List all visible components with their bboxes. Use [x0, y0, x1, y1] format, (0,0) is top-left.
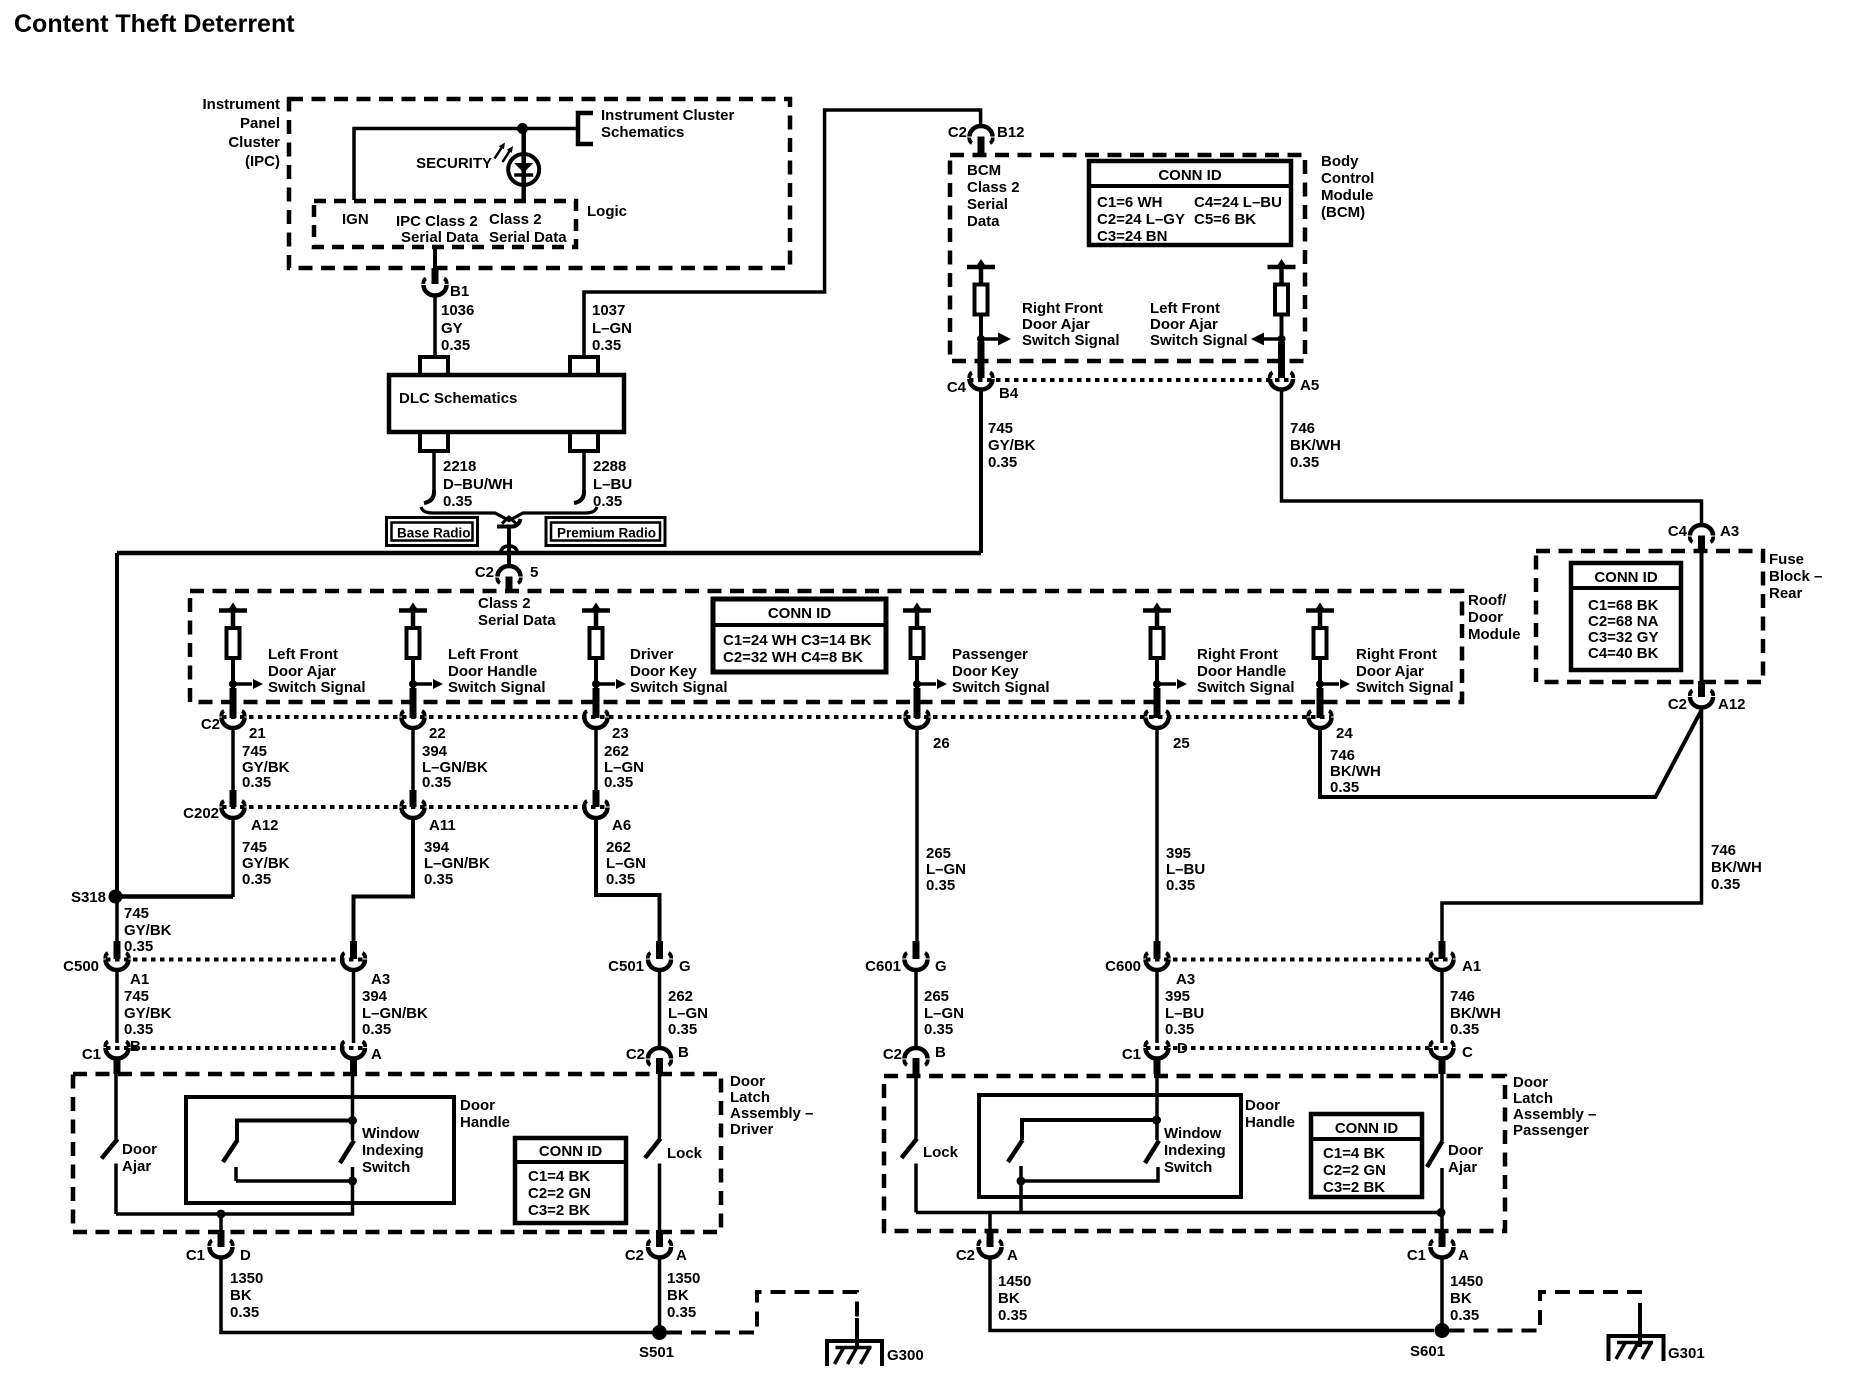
- svg-text:745: 745: [242, 743, 267, 760]
- svg-text:C3=32 GY: C3=32 GY: [1588, 629, 1658, 646]
- svg-text:Door Key: Door Key: [952, 663, 1019, 680]
- wire 2288 L-BU: [582, 451, 586, 494]
- connector C2 B (passenger lock): [883, 1044, 946, 1074]
- Body Control Module box: [950, 153, 1374, 361]
- svg-text:C2: C2: [883, 1046, 902, 1063]
- switch window right driver: [340, 1141, 354, 1164]
- svg-text:C1=68 BK: C1=68 BK: [1588, 597, 1659, 614]
- wire 746 BK/WH from A5: [1282, 391, 1702, 525]
- svg-text:Switch Signal: Switch Signal: [268, 679, 366, 696]
- svg-text:C2: C2: [948, 124, 967, 141]
- module connector row C2: [222, 715, 1331, 719]
- svg-text:Latch: Latch: [1513, 1090, 1553, 1107]
- svg-text:745: 745: [988, 420, 1013, 437]
- svg-text:C1: C1: [82, 1046, 101, 1063]
- svg-text:21: 21: [249, 725, 266, 742]
- svg-text:L–GN/BK: L–GN/BK: [362, 1005, 428, 1022]
- svg-text:394: 394: [424, 839, 450, 856]
- svg-text:L–GN/BK: L–GN/BK: [424, 855, 490, 872]
- node window lower passenger: [1017, 1177, 1026, 1186]
- svg-text:0.35: 0.35: [422, 774, 451, 791]
- svg-text:25: 25: [1173, 735, 1190, 752]
- wire window drop passenger: [1019, 1181, 1023, 1213]
- svg-text:D–BU/WH: D–BU/WH: [443, 476, 513, 493]
- svg-text:745: 745: [124, 905, 149, 922]
- connector row C600: [1146, 958, 1453, 962]
- wire 262 L-GN pin23: [594, 729, 598, 790]
- connector C (passenger): [1430, 1042, 1473, 1075]
- svg-text:C1: C1: [1122, 1046, 1141, 1063]
- svg-text:746: 746: [1330, 747, 1355, 764]
- ground G300: [825, 1339, 924, 1366]
- resistor right front door handle switch: [1143, 603, 1171, 691]
- connector C2 A (passenger bottom): [956, 1230, 1018, 1264]
- wire 745 GY/BK from B4: [979, 391, 983, 554]
- svg-text:Control: Control: [1321, 170, 1374, 187]
- LED SECURITY indicator: [508, 154, 539, 185]
- svg-text:C3=2 BK: C3=2 BK: [528, 1202, 590, 1219]
- wire 1450 BK from C2 A passenger: [990, 1258, 1434, 1331]
- wire 746 BK/WH pin24: [1320, 710, 1702, 797]
- svg-text:0.35: 0.35: [604, 774, 633, 791]
- node window upper driver: [348, 1116, 357, 1125]
- wire through fuse block: [1700, 551, 1704, 696]
- connector C202 A11: [401, 790, 455, 834]
- connector C2 pin 25: [1145, 688, 1189, 752]
- svg-text:D: D: [1177, 1040, 1188, 1057]
- svg-text:0.35: 0.35: [1165, 1021, 1194, 1038]
- connector C601 G: [865, 941, 947, 975]
- BCM CONN ID table: [1089, 161, 1291, 245]
- svg-text:Right Front: Right Front: [1356, 646, 1437, 663]
- connector C500 A1: [63, 941, 149, 988]
- wire 394 L-GN/BK A3-A: [352, 970, 356, 1043]
- connector row C202: [222, 805, 607, 809]
- svg-text:395: 395: [1166, 845, 1191, 862]
- svg-text:Indexing: Indexing: [1164, 1142, 1226, 1159]
- DLC Schematics box: [389, 375, 624, 432]
- svg-text:BCM: BCM: [967, 162, 1001, 179]
- switch lock passenger: [902, 1074, 959, 1213]
- wire 265 L-GN C601-C2: [914, 970, 918, 1046]
- radio tap symbol: [497, 519, 521, 527]
- bus crossover bump: [501, 546, 518, 553]
- svg-text:C1: C1: [1407, 1247, 1426, 1264]
- svg-text:745: 745: [242, 839, 267, 856]
- svg-text:5: 5: [530, 564, 538, 581]
- svg-text:262: 262: [606, 839, 631, 856]
- svg-text:C3=2 BK: C3=2 BK: [1323, 1179, 1385, 1196]
- svg-text:Instrument Cluster: Instrument Cluster: [601, 107, 735, 124]
- connector C2 pin 22: [401, 688, 445, 742]
- svg-text:Class 2: Class 2: [489, 211, 542, 228]
- svg-text:A: A: [676, 1247, 687, 1264]
- svg-text:A3: A3: [1176, 971, 1195, 988]
- svg-text:C4: C4: [1668, 523, 1688, 540]
- svg-text:0.35: 0.35: [124, 1021, 153, 1038]
- svg-text:746: 746: [1711, 842, 1736, 859]
- svg-text:Switch Signal: Switch Signal: [630, 679, 728, 696]
- svg-text:Switch: Switch: [362, 1159, 410, 1176]
- svg-text:C500: C500: [63, 958, 99, 975]
- svg-text:D: D: [240, 1247, 251, 1264]
- wire passenger ground link: [916, 1211, 1441, 1215]
- svg-text:C601: C601: [865, 958, 901, 975]
- Premium Radio box: [546, 518, 665, 546]
- svg-text:0.35: 0.35: [668, 1021, 697, 1038]
- wire LED vertical: [521, 129, 526, 201]
- svg-text:Door Ajar: Door Ajar: [268, 663, 336, 680]
- svg-text:B: B: [678, 1044, 689, 1061]
- svg-text:Serial Data: Serial Data: [489, 229, 567, 246]
- wire 1037 L-GN to BCM: [584, 110, 981, 356]
- svg-text:SECURITY: SECURITY: [416, 155, 492, 172]
- svg-text:Handle: Handle: [460, 1114, 510, 1131]
- wire 1450 BK from C1 A: [1440, 1258, 1444, 1331]
- svg-text:2288: 2288: [593, 458, 626, 475]
- svg-text:BK: BK: [1450, 1290, 1472, 1307]
- svg-text:0.35: 0.35: [667, 1304, 696, 1321]
- svg-text:23: 23: [612, 725, 629, 742]
- bracket Instrument Cluster Schematics: [578, 113, 593, 144]
- connector row C500: [106, 958, 364, 962]
- svg-text:G: G: [679, 958, 691, 975]
- svg-text:Right Front: Right Front: [1197, 646, 1278, 663]
- svg-text:A12: A12: [251, 817, 279, 834]
- connector C2 A12 (fuse block): [1668, 681, 1746, 713]
- svg-text:L–GN: L–GN: [926, 861, 966, 878]
- svg-text:262: 262: [604, 743, 629, 760]
- svg-text:CONN ID: CONN ID: [1335, 1120, 1399, 1137]
- svg-text:Left Front: Left Front: [268, 646, 338, 663]
- svg-text:Ajar: Ajar: [122, 1158, 151, 1175]
- resistor passenger door key switch: [903, 603, 931, 691]
- svg-text:C4=40 BK: C4=40 BK: [1588, 645, 1659, 662]
- svg-text:Switch Signal: Switch Signal: [1150, 332, 1248, 349]
- wire driver ground link: [116, 1181, 353, 1214]
- svg-text:0.35: 0.35: [424, 871, 453, 888]
- dashed ground run to G300: [667, 1292, 857, 1333]
- wire 1450 BK from C2 A driver: [658, 1258, 662, 1333]
- svg-text:C4=24 L–BU: C4=24 L–BU: [1194, 194, 1282, 211]
- wire window switch upper driver: [237, 1121, 353, 1142]
- svg-text:746: 746: [1290, 420, 1315, 437]
- svg-text:Cluster: Cluster: [228, 134, 280, 151]
- LED arrows: [495, 143, 514, 163]
- node arrow right front: [977, 335, 985, 343]
- Window Indexing Switch box passenger: [979, 1095, 1241, 1197]
- wire 394 L-GN/BK pin22: [411, 729, 415, 790]
- connector row C1 passenger: [1146, 1046, 1453, 1050]
- wire 1036 GY: [433, 296, 437, 356]
- svg-text:A3: A3: [1720, 523, 1739, 540]
- wire 745 GY/BK pin21: [231, 729, 235, 790]
- connector C2 pin 23: [584, 688, 628, 742]
- svg-text:Switch: Switch: [1164, 1159, 1212, 1176]
- wire 745 GY/BK C500-C1: [115, 970, 119, 1043]
- svg-text:0.35: 0.35: [592, 337, 621, 354]
- svg-text:Content Theft Deterrent: Content Theft Deterrent: [14, 10, 295, 38]
- svg-text:Lock: Lock: [667, 1145, 703, 1162]
- svg-text:Roof/: Roof/: [1468, 592, 1507, 609]
- svg-text:Indexing: Indexing: [362, 1142, 424, 1159]
- svg-text:C2=2 GN: C2=2 GN: [528, 1185, 591, 1202]
- splice S318: [117, 894, 233, 899]
- svg-text:B: B: [130, 1038, 141, 1055]
- svg-text:C1=6 WH: C1=6 WH: [1097, 194, 1162, 211]
- svg-text:Module: Module: [1468, 626, 1521, 643]
- svg-text:Instrument: Instrument: [202, 96, 280, 113]
- svg-text:0.35: 0.35: [230, 1304, 259, 1321]
- node arrow LF door ajar: [229, 680, 237, 688]
- svg-text:A6: A6: [612, 817, 631, 834]
- node arrow LF door handle: [409, 680, 417, 688]
- dashed ground run to G301: [1450, 1292, 1641, 1331]
- wire IGN to node: [354, 129, 577, 201]
- node arrow RF door ajar: [1316, 680, 1324, 688]
- svg-text:GY/BK: GY/BK: [242, 855, 290, 872]
- wire 395 L-BU C600-C1: [1155, 970, 1159, 1043]
- svg-text:Door: Door: [1468, 609, 1503, 626]
- ground G301: [1607, 1334, 1705, 1362]
- svg-text:Handle: Handle: [1245, 1114, 1295, 1131]
- wire from connector A into window switch: [351, 1074, 355, 1140]
- svg-text:G: G: [935, 958, 947, 975]
- svg-text:A1: A1: [130, 971, 149, 988]
- wire 1350 BK from C1 D: [221, 1258, 652, 1333]
- splice S601: [1435, 1323, 1450, 1338]
- wire 262 L-GN A6: [596, 819, 660, 942]
- wire 2218 D-BU/WH: [432, 451, 436, 494]
- svg-text:0.35: 0.35: [1450, 1307, 1479, 1324]
- svg-text:C2=32 WH C4=8 BK: C2=32 WH C4=8 BK: [723, 649, 863, 666]
- svg-text:Body: Body: [1321, 153, 1359, 170]
- svg-text:A: A: [1458, 1247, 1469, 1264]
- svg-text:GY/BK: GY/BK: [124, 922, 172, 939]
- svg-text:Window: Window: [362, 1125, 420, 1142]
- svg-text:A: A: [1007, 1247, 1018, 1264]
- svg-text:B: B: [935, 1044, 946, 1061]
- svg-text:A1: A1: [1462, 958, 1481, 975]
- svg-text:0.35: 0.35: [988, 454, 1017, 471]
- svg-text:1450: 1450: [998, 1273, 1031, 1290]
- svg-text:L–GN: L–GN: [592, 320, 632, 337]
- svg-text:Door: Door: [730, 1073, 765, 1090]
- svg-text:Lock: Lock: [923, 1144, 959, 1161]
- svg-text:(IPC): (IPC): [245, 153, 280, 170]
- svg-text:A5: A5: [1300, 377, 1319, 394]
- svg-text:Latch: Latch: [730, 1089, 770, 1106]
- svg-text:Door Ajar: Door Ajar: [1356, 663, 1424, 680]
- svg-text:B1: B1: [450, 283, 469, 300]
- svg-text:S501: S501: [639, 1344, 674, 1361]
- connector C2 B (driver lock): [626, 1044, 689, 1074]
- svg-text:L–GN: L–GN: [668, 1005, 708, 1022]
- wire 262 L-GN C501-C2: [658, 970, 662, 1046]
- svg-text:0.35: 0.35: [1711, 876, 1740, 893]
- node junction dot: [517, 123, 528, 134]
- svg-text:BK/WH: BK/WH: [1290, 437, 1341, 454]
- svg-text:0.35: 0.35: [242, 871, 271, 888]
- svg-text:A12: A12: [1718, 696, 1746, 713]
- svg-text:IGN: IGN: [342, 211, 369, 228]
- svg-text:Door: Door: [460, 1097, 495, 1114]
- svg-text:BK: BK: [667, 1287, 689, 1304]
- svg-text:262: 262: [668, 988, 693, 1005]
- wire from C1 D into window switch: [1155, 1074, 1159, 1140]
- connector C2 A (driver bottom): [625, 1230, 687, 1264]
- svg-text:S601: S601: [1410, 1343, 1445, 1360]
- node arrow driver door key: [592, 680, 600, 688]
- svg-text:BK/WH: BK/WH: [1450, 1005, 1501, 1022]
- connector A1 (passenger): [1430, 941, 1481, 975]
- svg-text:Right Front: Right Front: [1022, 300, 1103, 317]
- svg-text:24: 24: [1336, 725, 1353, 742]
- svg-text:Block –: Block –: [1769, 568, 1822, 585]
- connector C2 B12: [948, 124, 1025, 154]
- svg-text:S318: S318: [71, 889, 106, 906]
- connector A (driver): [342, 1042, 382, 1075]
- svg-text:Assembly –: Assembly –: [1513, 1106, 1596, 1123]
- svg-text:CONN ID: CONN ID: [539, 1143, 603, 1160]
- connector C202 A12: [221, 790, 278, 834]
- svg-text:L–GN: L–GN: [606, 855, 646, 872]
- Door Latch Assembly Passenger box: [884, 1074, 1596, 1231]
- connector C2 pin 26: [905, 688, 949, 752]
- svg-text:BK: BK: [230, 1287, 252, 1304]
- svg-text:2218: 2218: [443, 458, 476, 475]
- svg-text:B12: B12: [997, 124, 1025, 141]
- svg-text:0.35: 0.35: [606, 871, 635, 888]
- DLC terminal bottom-right: [570, 432, 598, 451]
- svg-text:Serial: Serial: [967, 196, 1008, 213]
- wire 745 GY/BK A12: [231, 819, 235, 897]
- wire 746 BK/WH from A12: [1442, 708, 1702, 942]
- svg-text:BK/WH: BK/WH: [1711, 859, 1762, 876]
- svg-text:C2: C2: [201, 716, 220, 733]
- svg-text:0.35: 0.35: [1330, 779, 1359, 796]
- svg-text:0.35: 0.35: [926, 877, 955, 894]
- svg-text:C501: C501: [608, 958, 644, 975]
- svg-text:Switch Signal: Switch Signal: [1356, 679, 1454, 696]
- fuse CONN ID table: [1571, 563, 1681, 670]
- svg-text:265: 265: [924, 988, 949, 1005]
- svg-text:Door Key: Door Key: [630, 663, 697, 680]
- connector A5: [1270, 342, 1319, 394]
- svg-text:Rear: Rear: [1769, 585, 1803, 602]
- svg-text:Window: Window: [1164, 1125, 1222, 1142]
- svg-text:Switch Signal: Switch Signal: [1022, 332, 1120, 349]
- node arrow left front: [1278, 335, 1286, 343]
- svg-text:(BCM): (BCM): [1321, 204, 1365, 221]
- svg-text:A: A: [371, 1046, 382, 1063]
- wire 265 L-GN pin26: [915, 729, 919, 942]
- svg-text:L–GN: L–GN: [924, 1005, 964, 1022]
- svg-text:Module: Module: [1321, 187, 1374, 204]
- svg-text:Serial Data: Serial Data: [401, 229, 479, 246]
- svg-text:Door Handle: Door Handle: [1197, 663, 1286, 680]
- svg-text:CONN ID: CONN ID: [1158, 167, 1222, 184]
- svg-text:C1: C1: [186, 1247, 205, 1264]
- svg-text:Left Front: Left Front: [448, 646, 518, 663]
- svg-text:B4: B4: [999, 385, 1019, 402]
- svg-text:C2: C2: [956, 1247, 975, 1264]
- svg-text:Switch Signal: Switch Signal: [952, 679, 1050, 696]
- svg-text:Driver: Driver: [730, 1121, 774, 1138]
- DLC terminal top-left: [420, 357, 448, 375]
- svg-text:0.35: 0.35: [242, 774, 271, 791]
- resistor driver door key switch: [582, 603, 610, 691]
- svg-text:C1=4 BK: C1=4 BK: [1323, 1145, 1385, 1162]
- svg-text:1036: 1036: [441, 302, 474, 319]
- Window Indexing Switch box driver: [186, 1097, 454, 1203]
- connector C1 A (passenger bottom): [1407, 1230, 1469, 1264]
- svg-text:C2=2 GN: C2=2 GN: [1323, 1162, 1386, 1179]
- svg-text:C600: C600: [1105, 958, 1141, 975]
- svg-text:GY/BK: GY/BK: [988, 437, 1036, 454]
- connector C600 A3: [1105, 941, 1195, 988]
- svg-text:0.35: 0.35: [443, 493, 472, 510]
- Fuse Block Rear box: [1536, 551, 1822, 682]
- wire window switch upper passenger: [1022, 1120, 1157, 1140]
- svg-text:395: 395: [1165, 988, 1190, 1005]
- svg-text:Class 2: Class 2: [478, 595, 531, 612]
- node window lower driver: [348, 1177, 357, 1186]
- wire left bus vertical: [115, 553, 119, 897]
- svg-text:Panel: Panel: [240, 115, 280, 132]
- svg-text:745: 745: [124, 988, 149, 1005]
- splice S501: [652, 1325, 667, 1340]
- connector C501 G: [608, 941, 691, 975]
- DLC terminal bottom-left: [420, 432, 448, 451]
- svg-text:Switch Signal: Switch Signal: [1197, 679, 1295, 696]
- svg-text:GY: GY: [441, 320, 463, 337]
- svg-text:C2: C2: [626, 1046, 645, 1063]
- svg-text:C202: C202: [183, 805, 219, 822]
- svg-text:Class 2: Class 2: [967, 179, 1020, 196]
- svg-text:A11: A11: [429, 817, 456, 834]
- svg-text:0.35: 0.35: [1450, 1021, 1479, 1038]
- svg-text:Door Ajar: Door Ajar: [1150, 316, 1218, 333]
- wire door ajar to C1 A: [1440, 1213, 1444, 1231]
- svg-text:Premium Radio: Premium Radio: [557, 526, 656, 541]
- svg-text:Ajar: Ajar: [1448, 1159, 1477, 1176]
- connector C1 D (driver bottom): [186, 1230, 251, 1264]
- wire radio stem: [507, 525, 511, 565]
- node passenger ground: [1437, 1208, 1446, 1217]
- svg-text:746: 746: [1450, 988, 1475, 1005]
- svg-text:C2: C2: [625, 1247, 644, 1264]
- switch window right passenger: [1145, 1141, 1159, 1164]
- svg-text:1350: 1350: [230, 1270, 263, 1287]
- svg-text:G300: G300: [887, 1347, 924, 1364]
- svg-text:394: 394: [362, 988, 388, 1005]
- svg-text:C3=24 BN: C3=24 BN: [1097, 228, 1167, 245]
- svg-text:IPC Class 2: IPC Class 2: [396, 213, 478, 230]
- Instrument Panel Cluster (IPC) module box: [202, 96, 790, 268]
- wire lock drop passenger: [988, 1213, 992, 1231]
- connector C4 A3 (fuse block): [1668, 523, 1739, 552]
- connector B1: [423, 268, 469, 300]
- logic box: [314, 201, 627, 247]
- svg-text:BK: BK: [998, 1290, 1020, 1307]
- resistor right front door ajar (BCM): [967, 259, 995, 345]
- Base Radio box: [387, 518, 478, 546]
- svg-text:L–BU: L–BU: [593, 476, 632, 493]
- svg-text:Driver: Driver: [630, 646, 674, 663]
- svg-text:26: 26: [933, 735, 950, 752]
- brace joining radios: [421, 507, 597, 521]
